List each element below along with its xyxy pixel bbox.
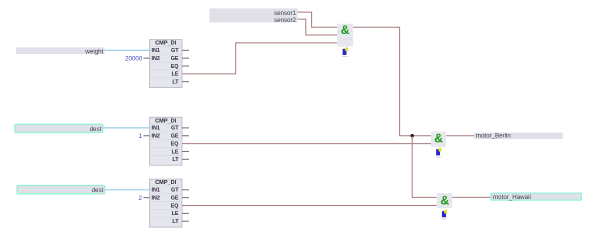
stub CMP3 LT bbox=[182, 220, 189, 222]
tag bar sensor1/sensor2 bbox=[210, 8, 298, 23]
svg-text:IN1: IN1 bbox=[152, 126, 160, 132]
svg-text:sensor2: sensor2 bbox=[274, 17, 297, 24]
wire CMP2 EQ to AND2 input2 bbox=[182, 143, 431, 145]
svg-text:LE: LE bbox=[172, 211, 179, 217]
stub CMP2 LE bbox=[182, 150, 189, 152]
svg-text:EQ: EQ bbox=[171, 203, 179, 209]
badge icon under AND2 bbox=[436, 148, 442, 157]
svg-text:weight: weight bbox=[84, 48, 103, 55]
wire CMP1 LE to AND1 input3 bbox=[182, 43, 337, 74]
AND gate 2 bbox=[431, 132, 446, 148]
stub CMP1 GE bbox=[182, 57, 189, 59]
stub CMP1 EQ bbox=[182, 65, 189, 67]
stub CMP2 LT bbox=[182, 158, 189, 160]
svg-text:LE: LE bbox=[172, 149, 179, 155]
svg-text:20000: 20000 bbox=[125, 55, 143, 62]
svg-text:2: 2 bbox=[139, 195, 143, 202]
stub CMP3 GE bbox=[182, 197, 189, 199]
svg-text:GT: GT bbox=[171, 48, 179, 54]
svg-text:GT: GT bbox=[171, 188, 179, 194]
tag bar motor_Berlin bbox=[474, 133, 563, 140]
tag bar motor_Hawaii (selected) bbox=[491, 193, 581, 201]
wire dest1 to CMP2 IN1 bbox=[103, 127, 150, 129]
stub CMP3 IN2 bbox=[144, 197, 150, 199]
tag bar dest 1 (selected) bbox=[15, 124, 103, 133]
svg-text:CMP_DI: CMP_DI bbox=[155, 41, 177, 47]
stub CMP2 GT bbox=[182, 127, 189, 129]
svg-text:GE: GE bbox=[171, 196, 179, 202]
svg-text:GE: GE bbox=[171, 56, 179, 62]
stub CMP3 GT bbox=[182, 189, 189, 191]
svg-text:IN1: IN1 bbox=[152, 188, 160, 194]
stub CMP1 GT bbox=[182, 49, 189, 51]
tag bar weight bbox=[16, 47, 105, 55]
badge icon under AND1 bbox=[342, 47, 348, 56]
svg-text:LE: LE bbox=[172, 72, 179, 78]
stub CMP3 LE bbox=[182, 212, 189, 214]
tag bar dest 2 (selected) bbox=[17, 186, 105, 195]
svg-text:1: 1 bbox=[139, 133, 143, 140]
junction dot bbox=[411, 134, 414, 137]
wire sensor1 to AND1 input1 bbox=[298, 12, 338, 27]
stub CMP2 IN2 bbox=[144, 135, 150, 137]
wire AND3 output to motor_Hawaii bbox=[452, 196, 491, 198]
svg-text:dest: dest bbox=[92, 187, 104, 194]
svg-text:CMP_DI: CMP_DI bbox=[155, 118, 177, 124]
stub CMP2 GE bbox=[182, 135, 189, 137]
wire sensor2 to AND1 input2 bbox=[298, 19, 338, 35]
wire AND2 output to motor_Berlin bbox=[446, 135, 474, 137]
svg-text:IN1: IN1 bbox=[152, 48, 160, 54]
svg-text:IN2: IN2 bbox=[152, 134, 160, 140]
svg-text:EQ: EQ bbox=[171, 141, 179, 147]
badge icon under AND3 bbox=[442, 210, 448, 219]
comparator CMP_DI 1 bbox=[150, 40, 183, 88]
wire dest2 to CMP3 IN1 bbox=[105, 189, 150, 191]
svg-text:GE: GE bbox=[171, 134, 179, 140]
stub CMP1 IN2 bbox=[144, 57, 150, 59]
svg-text:IN2: IN2 bbox=[152, 196, 160, 202]
svg-text:motor_Hawaii: motor_Hawaii bbox=[493, 194, 531, 201]
svg-text:LT: LT bbox=[172, 157, 179, 163]
comparator CMP_DI 2 bbox=[150, 117, 183, 165]
svg-text:GT: GT bbox=[171, 126, 179, 132]
wire CMP3 EQ to AND3 input2 bbox=[182, 205, 437, 207]
comparator CMP_DI 3 bbox=[150, 179, 183, 227]
svg-text:EQ: EQ bbox=[171, 64, 179, 70]
svg-text:dest: dest bbox=[90, 126, 102, 133]
wire junction to AND3 input1 bbox=[412, 136, 437, 198]
AND gate 1 bbox=[337, 24, 353, 47]
wire weight to CMP1 IN1 bbox=[105, 49, 150, 51]
svg-text:IN2: IN2 bbox=[152, 56, 160, 62]
svg-text:CMP_DI: CMP_DI bbox=[155, 180, 177, 186]
AND gate 3 bbox=[437, 193, 453, 208]
svg-text:sensor1: sensor1 bbox=[274, 10, 297, 17]
svg-text:LT: LT bbox=[172, 80, 179, 86]
svg-text:motor_Berlin: motor_Berlin bbox=[476, 133, 512, 140]
stub CMP1 LT bbox=[182, 81, 189, 83]
svg-text:LT: LT bbox=[172, 219, 179, 225]
wire AND1 output to AND2 input1 bbox=[353, 27, 431, 136]
